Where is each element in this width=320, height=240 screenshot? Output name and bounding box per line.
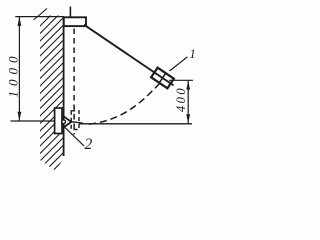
svg-text:400: 400 — [174, 86, 188, 112]
svg-text:1: 1 — [190, 47, 196, 61]
svg-text:1000: 1000 — [6, 52, 21, 98]
svg-text:2: 2 — [85, 136, 93, 153]
